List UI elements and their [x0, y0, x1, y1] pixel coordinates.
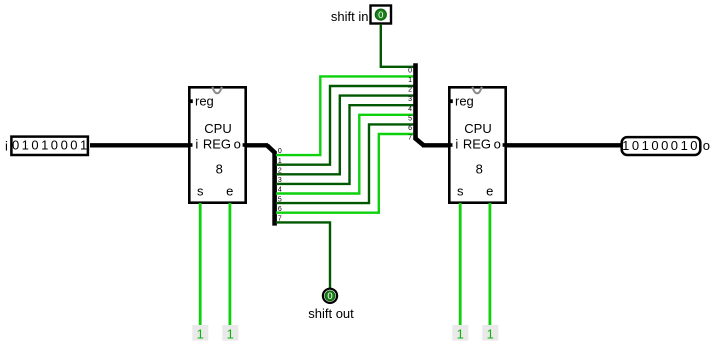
- svg-text:0: 0: [690, 138, 697, 153]
- svg-text:0: 0: [70, 138, 77, 153]
- svg-text:1: 1: [22, 138, 29, 153]
- pin marker U2.o: [503, 143, 506, 147]
- pin OUT (8-bit output, value 10100010): [622, 137, 701, 155]
- svg-text:1: 1: [457, 327, 464, 342]
- wire: U2.e to constant (bright green): [488, 203, 491, 329]
- pin IN (8-bit input, value 01010001): [11, 137, 88, 155]
- svg-text:0: 0: [632, 138, 639, 153]
- svg-text:1: 1: [80, 138, 87, 153]
- constant 1 (under U2.e): [482, 325, 498, 342]
- wire bit0: S1.0 to S2.1 (bright green, 1): [276, 76, 414, 155]
- svg-text:REG: REG: [203, 137, 231, 152]
- svg-text:reg: reg: [455, 93, 474, 108]
- facing notch U2: [472, 87, 481, 94]
- svg-text:e: e: [486, 183, 493, 198]
- pin shift-in (1-bit input, value 0): [371, 6, 392, 24]
- constant 1 (under U1.e): [222, 325, 238, 342]
- pin shift-out (1-bit output, value 0): [323, 289, 337, 303]
- pin marker U1.i: [189, 143, 192, 147]
- svg-text:1: 1: [227, 327, 234, 342]
- svg-text:0: 0: [671, 138, 678, 153]
- wire: pin IN to U1.i (8-bit bus): [90, 143, 190, 147]
- svg-text:6: 6: [408, 125, 412, 132]
- svg-text:0: 0: [327, 291, 332, 302]
- svg-text:1: 1: [681, 138, 688, 153]
- wire bit3: S1.3 to S2.4 (dark green, 0): [276, 105, 414, 184]
- svg-text:8: 8: [216, 162, 223, 177]
- svg-text:1: 1: [197, 327, 204, 342]
- svg-text:0: 0: [31, 138, 38, 153]
- wire bit6: S1.6 to S2.7 (bright green, 1): [276, 134, 414, 213]
- svg-text:o: o: [494, 137, 501, 152]
- svg-text:0: 0: [12, 138, 19, 153]
- svg-text:0: 0: [651, 138, 658, 153]
- facing notch U1: [212, 87, 221, 94]
- svg-text:3: 3: [408, 96, 412, 103]
- svg-text:s: s: [457, 183, 464, 198]
- svg-text:2: 2: [408, 87, 412, 94]
- wire bit2: S1.2 to S2.3 (dark green, 0): [276, 96, 414, 175]
- splitter S2 (fan-in to U2 input): [408, 63, 423, 145]
- svg-text:o: o: [234, 137, 241, 152]
- svg-text:reg: reg: [195, 93, 214, 108]
- svg-text:1: 1: [642, 138, 649, 153]
- wire bit4: S1.4 to S2.5 (bright green, 1): [276, 115, 414, 194]
- wire bit5: S1.5 to S2.6 (dark green, 0): [276, 124, 414, 203]
- pin marker U2.i: [449, 143, 452, 147]
- wire: U1.o to splitter S1: [247, 143, 268, 147]
- svg-text:REG: REG: [463, 137, 491, 152]
- svg-text:1: 1: [41, 138, 48, 153]
- wire: U1.e to constant (bright green): [228, 203, 231, 329]
- pin marker U1.o: [243, 143, 246, 147]
- pin marker U1.reg: [189, 99, 193, 103]
- svg-text:7: 7: [408, 135, 412, 142]
- splitter S1 (fan-out of U1 output): [267, 145, 282, 225]
- svg-text:o: o: [703, 138, 710, 153]
- wire: U2.s to constant (bright green): [459, 203, 462, 329]
- wire: U2.o to pin OUT (8-bit bus): [507, 143, 622, 147]
- svg-text:0: 0: [51, 138, 58, 153]
- svg-text:shift in: shift in: [331, 9, 369, 24]
- constant 1 (under U1.s): [192, 325, 208, 342]
- svg-text:CPU: CPU: [464, 121, 491, 136]
- svg-text:0: 0: [61, 138, 68, 153]
- svg-text:5: 5: [408, 115, 412, 122]
- svg-text:0: 0: [378, 10, 383, 21]
- wire: U1.s to constant (bright green): [199, 203, 202, 329]
- svg-text:4: 4: [408, 106, 412, 113]
- svg-text:i: i: [455, 137, 458, 152]
- wire bit1: S1.1 to S2.2 (dark green, 0): [276, 86, 414, 165]
- svg-text:1: 1: [487, 327, 494, 342]
- constant 1 (under U2.s): [452, 325, 468, 342]
- wire bit7: S1.7 to shift-out (dark green, 0): [276, 222, 330, 288]
- svg-text:1: 1: [408, 77, 412, 84]
- svg-text:CPU: CPU: [204, 121, 231, 136]
- wire: shift-in to S2 bit0 (dark green, 0): [381, 24, 414, 67]
- svg-text:s: s: [197, 183, 204, 198]
- svg-text:8: 8: [476, 162, 483, 177]
- register U2 (CPU REG subcircuit): [449, 87, 506, 203]
- svg-text:1: 1: [622, 138, 629, 153]
- svg-text:e: e: [226, 183, 233, 198]
- svg-text:0: 0: [661, 138, 668, 153]
- svg-text:0: 0: [408, 67, 412, 74]
- svg-text:shift out: shift out: [308, 306, 354, 321]
- wire: S2 to U2.i (8-bit bus): [422, 143, 449, 147]
- register U1 (CPU REG subcircuit): [189, 87, 246, 203]
- svg-text:i: i: [5, 138, 8, 153]
- svg-text:i: i: [195, 137, 198, 152]
- pin marker U2.reg: [449, 99, 453, 103]
